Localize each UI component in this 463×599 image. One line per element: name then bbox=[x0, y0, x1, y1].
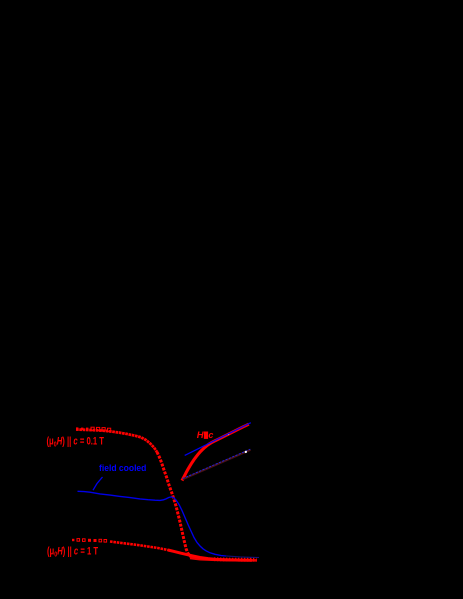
svg-text:c: c bbox=[208, 430, 213, 440]
curve R1/R2 merged tail bbox=[190, 558, 257, 560]
inset lower line: dark red dotted bbox=[183, 450, 251, 479]
svg-text:H: H bbox=[197, 430, 205, 441]
curve R2: magnetization, mu0 H = 1 T (red squares) bbox=[72, 539, 252, 561]
inset: M(H) initial curve, red thick bbox=[182, 424, 249, 480]
curve B1: field-cooled curve 0.1 T (blue) bbox=[78, 491, 227, 556]
FC curve faint tail bbox=[226, 556, 259, 558]
inset lower line: blue bbox=[183, 449, 251, 478]
svg-text:field cooled: field cooled bbox=[99, 462, 146, 473]
inset lower line: white end dot bbox=[245, 451, 247, 453]
sparse start markers R1 bbox=[76, 427, 78, 429]
inset: blue tangent line (Meissner slope) bbox=[185, 423, 251, 456]
inset red curve highlight core bbox=[207, 434, 228, 444]
curve R1: ZFC magnetization, mu0 H = 0.1 T (red squares) bbox=[76, 427, 257, 560]
curve R1 steep drop (square ladder) bbox=[157, 452, 193, 557]
pointer line from label to FC curve bbox=[93, 477, 103, 490]
